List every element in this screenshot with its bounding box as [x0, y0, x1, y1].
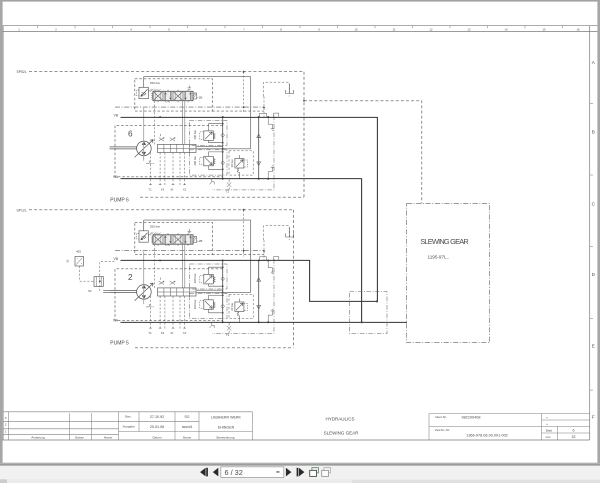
pressure switch dashed link	[80, 266, 94, 281]
pump5 shaft extension	[103, 290, 109, 292]
svg-text:3: 3	[5, 416, 7, 420]
svg-text:Ident-Nr.: Ident-Nr.	[435, 415, 447, 419]
pump6 outer box bottom dashed	[140, 196, 304, 198]
toolbar bottom right darker strip	[352, 480, 600, 483]
first page icon	[200, 468, 208, 477]
svg-text:LIEBHERR WERK: LIEBHERR WERK	[211, 416, 241, 420]
svg-text:Blatt: Blatt	[546, 429, 552, 433]
svg-text:2: 2	[128, 273, 133, 282]
leak line junction dot	[303, 100, 305, 102]
frame top line 1	[3, 25, 598, 27]
right row letters	[592, 60, 596, 420]
leak oil dashed to gear	[304, 101, 422, 204]
frame top line 2	[3, 31, 598, 33]
svg-text:6: 6	[128, 130, 133, 139]
tb right section left vertical	[428, 414, 430, 441]
frame left border	[2, 26, 4, 440]
shaft coupling inner marks	[96, 277, 101, 287]
top column numbers	[18, 28, 580, 32]
toolbar bottom left mark	[0, 479, 7, 483]
svg-text:16: 16	[576, 28, 580, 32]
junction dot NA5-NA6	[361, 321, 363, 323]
pump5 pilot drop dot	[243, 209, 245, 211]
pressure switch square	[75, 257, 84, 267]
pump5 outer box right edge dashed	[293, 210, 295, 348]
title block texts	[5, 415, 576, 440]
svg-text:Bezeichnung: Bezeichnung	[217, 436, 235, 440]
previous page icon	[213, 468, 219, 477]
toolbar lower strip	[0, 479, 600, 483]
svg-text:SLEWING GEAR: SLEWING GEAR	[324, 431, 360, 436]
svg-text:6 / 32: 6 / 32	[225, 468, 243, 477]
svg-text:tworoß: tworoß	[182, 425, 192, 429]
svg-text:Zeichn.-Nr.: Zeichn.-Nr.	[435, 428, 450, 432]
tb top line left+mid	[3, 411, 252, 413]
tb mid label row top	[119, 431, 253, 433]
svg-text:1195-97L..: 1195-97L..	[428, 255, 450, 260]
toolbar separator	[0, 463, 600, 466]
svg-text:EHINGEN: EHINGEN	[218, 426, 235, 430]
toolbar separator highlight	[0, 462, 600, 465]
VB line pump6	[121, 117, 378, 301]
svg-text:B: B	[592, 130, 595, 135]
tb right col vertical	[541, 414, 543, 441]
page box dropdown dash	[276, 471, 279, 472]
svg-text:Ausgabe: Ausgabe	[123, 425, 135, 429]
tb right col row line a	[542, 419, 590, 421]
frame bottom border	[3, 439, 590, 441]
coupling dashed riser	[100, 262, 115, 291]
pump5 pilot drop from leak line	[243, 210, 245, 257]
svg-text:F: F	[592, 415, 595, 420]
pump6 pilot drop dot	[243, 71, 245, 73]
pressure switch diagonal	[76, 258, 82, 265]
svg-text:S4: S4	[88, 289, 92, 293]
PUMP 5 circuit common parts	[110, 220, 294, 337]
svg-text:Bez.: Bez.	[125, 415, 131, 419]
svg-text:PUMP 5: PUMP 5	[110, 341, 129, 347]
toolbar background	[0, 466, 600, 479]
page number box	[221, 467, 284, 478]
NA line pump5	[121, 321, 408, 323]
svg-text:Änderung: Änderung	[31, 436, 45, 440]
svg-text:405: 405	[76, 250, 81, 254]
svg-text:14: 14	[504, 28, 508, 32]
svg-text:1366-978.06.00.001-002: 1366-978.06.00.001-002	[466, 433, 508, 437]
tb vertical 118.5	[118, 412, 120, 440]
svg-text:11: 11	[393, 28, 396, 32]
svg-text:SO: SO	[185, 415, 190, 419]
next page icon	[286, 468, 292, 477]
svg-text:SLEWING GEAR: SLEWING GEAR	[420, 237, 469, 246]
viewer grey edge left	[0, 0, 3, 463]
tb label row top left	[3, 433, 118, 435]
svg-text:32: 32	[66, 259, 70, 263]
svg-text:HYDRAULICS: HYDRAULICS	[325, 417, 354, 422]
svg-text:12: 12	[429, 28, 433, 32]
svg-text:15: 15	[542, 28, 546, 32]
TITLE BLOCK	[3, 412, 590, 440]
tb vertical 91.3	[90, 413, 92, 440]
SP52L dashed leak line	[29, 71, 304, 73]
tb vertical rev col	[8, 412, 10, 440]
svg-text:2: 2	[5, 423, 7, 427]
svg-text:Name: Name	[183, 436, 192, 440]
shaft coupling box	[94, 277, 103, 287]
frame right inner border	[589, 26, 591, 440]
PUMP 6 circuit common parts	[110, 77, 294, 194]
svg-text:Datum: Datum	[152, 436, 162, 440]
next view icon	[322, 468, 331, 477]
top column ticks	[38, 26, 563, 29]
viewer grey edge top	[0, 0, 600, 2]
tb right section top	[429, 413, 590, 415]
svg-text:E: E	[592, 343, 595, 348]
VB line pump5	[121, 260, 378, 301]
tb row line 1	[3, 420, 199, 422]
svg-text:SP52L: SP52L	[17, 70, 27, 74]
svg-text:Name: Name	[104, 436, 113, 440]
svg-text:32: 32	[572, 435, 576, 439]
tb vertical 69.5	[69, 413, 71, 440]
pump6 pilot drop from leak line	[243, 72, 245, 113]
slewing gear dash-dot box	[407, 203, 490, 342]
svg-text:30 bar: 30 bar	[230, 159, 234, 167]
last page icon	[297, 468, 305, 477]
svg-text:+: +	[546, 416, 548, 420]
svg-text:20.01.06: 20.01.06	[150, 425, 164, 429]
svg-text:+: +	[546, 422, 548, 426]
svg-text:27.10.92: 27.10.92	[150, 415, 164, 419]
tb row line 2 left	[3, 428, 118, 430]
NA line pump6	[121, 179, 362, 323]
svg-text:20 bar: 20 bar	[230, 303, 234, 311]
tb right col inner vertical	[557, 427, 559, 441]
svg-text:10: 10	[354, 28, 358, 32]
previous view icon	[310, 468, 319, 477]
SP12L dashed leak line	[29, 209, 294, 211]
bottom junction dash-dot box	[350, 292, 388, 334]
junction dot VB5-VB6	[376, 300, 378, 302]
shaft coupling junction dot	[99, 280, 101, 282]
svg-text:von: von	[546, 435, 551, 439]
tb vertical 199	[198, 412, 200, 440]
svg-text:Datum: Datum	[75, 436, 85, 440]
svg-text:982100408: 982100408	[461, 416, 480, 420]
tb right col row line b	[542, 432, 590, 434]
svg-text:PUMP 6: PUMP 6	[110, 197, 129, 203]
viewer grey edge right	[597, 0, 600, 463]
tb right section divider	[429, 426, 590, 428]
svg-text:1: 1	[5, 429, 7, 433]
svg-text:13: 13	[467, 28, 471, 32]
tb vertical 175	[174, 412, 176, 440]
svg-text:SP12L: SP12L	[17, 208, 27, 212]
tb vertical 139	[138, 412, 140, 432]
right row ticks	[590, 103, 593, 390]
pump6 outer box right edge dashed	[303, 72, 305, 198]
svg-text:6: 6	[573, 429, 575, 433]
tb vertical 252.5	[252, 412, 254, 440]
pump5 outer box bottom dashed	[135, 347, 294, 349]
